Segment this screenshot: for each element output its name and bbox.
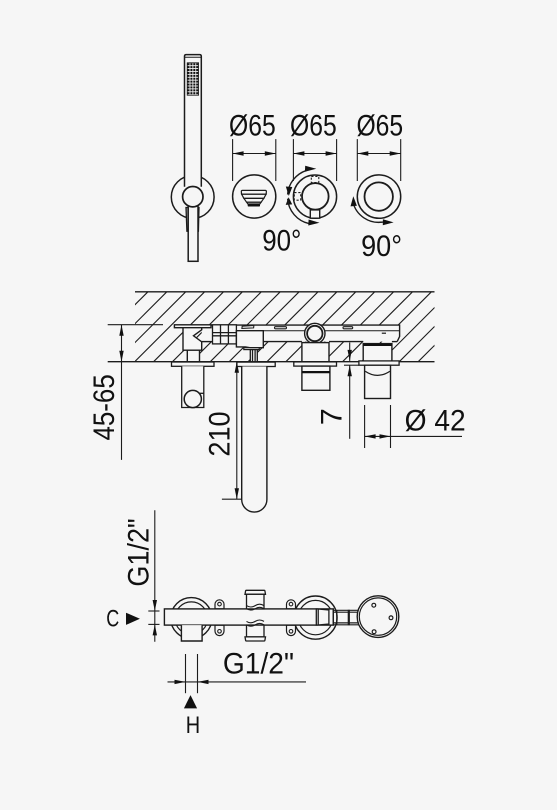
plan spout union lower plate: [245, 637, 266, 641]
circle 3 valve inner: [365, 182, 393, 210]
bracket inner ring: [183, 187, 203, 207]
svg-text:H: H: [186, 712, 200, 739]
holder escutcheon: [172, 362, 215, 366]
label Ø65 no3: [356, 110, 403, 143]
circle 3 valve outer: [357, 175, 400, 218]
svg-text:90°: 90°: [361, 230, 402, 263]
circle 3 arc arrowheads: [351, 196, 394, 225]
label Ø65 no2: [290, 110, 337, 143]
plan threaded nipple ladder: [333, 610, 359, 625]
right valve in-wall body: [363, 344, 392, 362]
plan circle left inner: [175, 602, 208, 635]
plan screw tab 1: [215, 600, 224, 609]
label 7: [316, 408, 349, 425]
plan spout union upper plate: [245, 590, 266, 594]
plan circle right inner: [298, 600, 332, 634]
circle 2 handle inner: [302, 183, 329, 210]
label H: [186, 712, 200, 739]
holder bracket below wall: [182, 366, 204, 407]
circle 2 rotation arc top: [288, 170, 307, 194]
wand cap seam: [185, 56, 202, 58]
spout in-wall stem: [250, 350, 257, 362]
handle groove band: [302, 371, 330, 373]
plan wall flange outer: [357, 596, 399, 638]
right valve dark top edge: [363, 344, 392, 346]
rail slot slanted: [242, 326, 254, 329]
dimension Ø42: [365, 405, 462, 448]
hand shower lower rod: [188, 206, 198, 262]
svg-text:C: C: [106, 605, 119, 632]
svg-text:45-65: 45-65: [88, 374, 121, 440]
handle escutcheon: [294, 362, 337, 366]
spout escutcheon: [237, 362, 275, 366]
circle 2 top arc arrowhead: [305, 166, 316, 172]
hand shower wand body: [185, 55, 202, 187]
plan spout union upper wavies: [247, 604, 265, 610]
plan circle left: [171, 598, 212, 639]
hand shower grip (shaded): [186, 208, 199, 232]
plan spout union lower body: [247, 625, 265, 637]
circle 1 spout escutcheon front: [233, 175, 276, 218]
circle 2 bottom arc arrowhead: [308, 220, 319, 226]
spout tube: [242, 367, 267, 513]
wand spray face dots: [187, 63, 198, 95]
hand shower bracket outer ring: [171, 176, 214, 219]
circle 1 spout icon: [241, 190, 266, 204]
plan flange screw holes: [372, 603, 393, 633]
cartridge inner circle: [307, 326, 322, 341]
svg-text:Ø65: Ø65: [290, 110, 337, 143]
plan main bar: [164, 609, 333, 625]
plan nut block in bar: [316, 609, 329, 625]
svg-text:210: 210: [204, 411, 237, 456]
label 90 deg no2: [361, 230, 402, 263]
spout step: [244, 348, 259, 350]
plan screw tab 3: [287, 600, 296, 609]
svg-text:Ø 42: Ø 42: [405, 405, 466, 438]
rail slot mid: [275, 327, 287, 329]
wall hatch band: [78, 292, 488, 362]
dimension Ø65 no3: [357, 139, 400, 181]
right valve escutcheon: [359, 361, 399, 365]
label Ø42: [405, 405, 466, 438]
label C: [106, 605, 119, 632]
wall face line: [108, 361, 435, 363]
label 210: [204, 411, 237, 456]
label Ø65 no1: [229, 110, 276, 143]
dimension 45-65: [108, 325, 163, 460]
dimension 210: [222, 362, 242, 500]
rail right detail dash: [382, 332, 386, 334]
dimension Ø65 no1: [233, 139, 276, 181]
circle 2 left bowtie arrowheads: [286, 187, 293, 205]
label G1/2 rotated: [123, 518, 156, 586]
handle in-wall body: [302, 343, 329, 362]
label 90 deg no1: [262, 225, 301, 258]
holder ring circle: [184, 390, 201, 407]
rail outline: [202, 325, 400, 342]
circle 2 handle outer: [293, 175, 336, 218]
spout in-wall body: [236, 331, 263, 348]
plan screw tab 4: [287, 625, 296, 635]
plan screw tab 2: [215, 625, 224, 636]
holder in-wall body: [183, 328, 202, 351]
in-wall rail body: [202, 325, 400, 342]
circle 2 lever tab bottom: [310, 210, 319, 218]
handle cylinder: [302, 366, 330, 390]
plan bar right end: [332, 609, 334, 625]
circle 3 rotation arc: [353, 202, 384, 223]
plan left lower block: [181, 625, 202, 641]
H up triangle: [184, 695, 197, 708]
dimension G1/2 left and C: [148, 510, 159, 642]
dimension Ø65 no2: [293, 139, 336, 181]
left flange plate: [174, 325, 211, 328]
circle 2 rotation arc bottom: [288, 199, 309, 224]
plan spout union lower wavies: [247, 620, 265, 626]
circle 2 dashed tick top: [311, 176, 319, 182]
dimension H: [168, 654, 307, 693]
circle 2 dashed tick left: [294, 193, 300, 201]
svg-text:90°: 90°: [262, 225, 301, 258]
svg-text:G1/2": G1/2": [223, 647, 294, 680]
cartridge housing circle: [305, 323, 325, 343]
plan wall flange inner: [359, 598, 396, 635]
rail slot right: [343, 327, 353, 329]
svg-text:Ø65: Ø65: [356, 110, 403, 143]
C pointer triangle: [126, 613, 140, 625]
dimension 7: [344, 343, 359, 439]
plan circle right: [294, 596, 337, 639]
holder in-wall stem: [187, 350, 199, 362]
label G1/2 bottom: [223, 647, 294, 680]
rail seam line: [236, 330, 399, 332]
grid coupling block: [213, 325, 237, 344]
wall top border: [135, 291, 435, 293]
svg-text:7: 7: [316, 408, 349, 425]
plan spout union upper body: [247, 594, 265, 609]
right valve dome arc: [365, 371, 390, 375]
label 45-65: [88, 374, 121, 440]
right valve cylinder: [365, 365, 391, 398]
svg-text:Ø65: Ø65: [229, 110, 276, 143]
svg-text:G1/2": G1/2": [123, 518, 156, 586]
